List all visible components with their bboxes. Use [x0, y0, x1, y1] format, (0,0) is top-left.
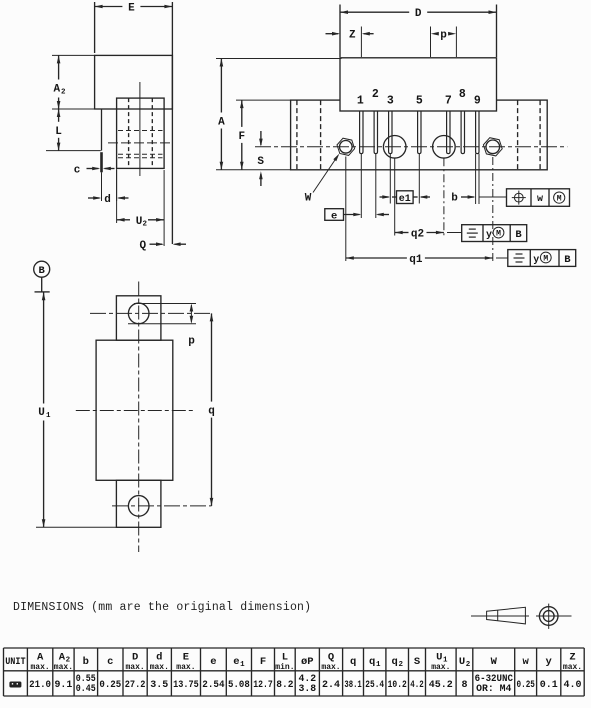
- svg-text:W: W: [491, 656, 498, 668]
- svg-text:e: e: [233, 656, 239, 668]
- svg-text:8: 8: [461, 680, 467, 691]
- svg-text:U: U: [436, 652, 442, 664]
- svg-text:5.08: 5.08: [228, 680, 250, 691]
- svg-text:min.: min.: [275, 663, 294, 672]
- svg-text:max.: max.: [125, 663, 144, 672]
- svg-text:10.2: 10.2: [388, 680, 407, 691]
- svg-text:2.4: 2.4: [322, 680, 340, 691]
- svg-text:1: 1: [376, 661, 381, 669]
- svg-text:max.: max.: [30, 663, 49, 672]
- svg-text:c: c: [74, 165, 81, 177]
- svg-text:w: w: [537, 194, 543, 205]
- svg-text:F: F: [238, 131, 245, 143]
- svg-text:3: 3: [387, 95, 394, 108]
- svg-text:UNIT: UNIT: [5, 656, 25, 668]
- svg-text:25.4: 25.4: [365, 680, 384, 691]
- svg-text:E: E: [128, 3, 135, 15]
- svg-text:M: M: [496, 230, 501, 239]
- svg-text:max.: max.: [150, 663, 169, 672]
- svg-text:7: 7: [445, 95, 452, 108]
- svg-text:A: A: [218, 117, 225, 129]
- svg-text:13.75: 13.75: [173, 680, 199, 691]
- svg-text:B: B: [564, 254, 571, 266]
- svg-text:4.0: 4.0: [563, 680, 581, 691]
- svg-text:A: A: [53, 84, 60, 96]
- svg-text:d: d: [156, 652, 162, 664]
- svg-text:9.1: 9.1: [55, 680, 73, 691]
- svg-text:F: F: [260, 656, 266, 668]
- svg-text:2: 2: [143, 220, 148, 228]
- svg-text:2.54: 2.54: [202, 680, 224, 691]
- svg-text:Q: Q: [328, 652, 334, 664]
- svg-text:2: 2: [398, 661, 403, 669]
- svg-text:p: p: [188, 336, 195, 348]
- svg-text:2: 2: [466, 661, 471, 669]
- svg-text:21.0: 21.0: [29, 680, 51, 691]
- svg-text:y: y: [486, 230, 492, 241]
- svg-text:B: B: [515, 229, 522, 241]
- svg-text:1: 1: [240, 661, 245, 669]
- svg-text:45.2: 45.2: [429, 680, 453, 691]
- svg-text:12.7: 12.7: [253, 680, 273, 691]
- svg-text:w: w: [523, 656, 530, 668]
- svg-text:d: d: [104, 194, 111, 206]
- svg-text:y: y: [546, 656, 553, 668]
- svg-text:e: e: [331, 210, 337, 222]
- svg-text:B: B: [39, 265, 46, 277]
- svg-text:U: U: [459, 656, 465, 668]
- svg-text:Q: Q: [139, 240, 146, 252]
- svg-text:OR: M4: OR: M4: [476, 683, 511, 694]
- svg-text:0.25: 0.25: [99, 680, 121, 691]
- svg-text:Z: Z: [569, 652, 575, 664]
- svg-text:y: y: [533, 255, 539, 266]
- svg-text:p: p: [440, 30, 447, 42]
- svg-text:M: M: [543, 255, 548, 264]
- svg-text:3.5: 3.5: [150, 680, 168, 691]
- svg-text:0.1: 0.1: [540, 680, 558, 691]
- svg-text:q: q: [350, 656, 356, 668]
- svg-text:e1: e1: [399, 194, 411, 205]
- svg-text:b: b: [83, 656, 89, 668]
- svg-text:U: U: [136, 216, 143, 228]
- svg-text:E: E: [183, 652, 189, 664]
- svg-text:D: D: [132, 652, 138, 664]
- svg-text:W: W: [305, 193, 312, 205]
- svg-text:c: c: [107, 656, 113, 668]
- svg-text:8.2: 8.2: [276, 680, 293, 691]
- svg-text:2: 2: [372, 88, 379, 101]
- svg-text:M: M: [557, 195, 562, 204]
- svg-text:max.: max.: [176, 663, 195, 672]
- svg-text:q2: q2: [411, 229, 424, 241]
- svg-text:L: L: [282, 652, 288, 664]
- svg-text:q: q: [392, 656, 398, 668]
- svg-text:e: e: [210, 656, 216, 668]
- svg-text:q1: q1: [409, 254, 423, 266]
- svg-text:q: q: [369, 656, 375, 668]
- svg-text:1: 1: [46, 412, 51, 420]
- svg-text:2: 2: [61, 89, 66, 97]
- svg-text:4.2: 4.2: [410, 680, 424, 691]
- svg-text:b: b: [451, 193, 458, 205]
- svg-text:Z: Z: [349, 30, 356, 42]
- svg-text:0.25: 0.25: [517, 680, 535, 691]
- svg-text:max.: max.: [321, 663, 340, 672]
- svg-text:U: U: [38, 407, 45, 419]
- svg-text:27.2: 27.2: [125, 680, 146, 691]
- svg-text:S: S: [414, 656, 420, 668]
- svg-text:q: q: [208, 406, 215, 418]
- svg-text:1: 1: [357, 95, 364, 108]
- svg-text:8: 8: [459, 88, 466, 101]
- svg-text:max.: max.: [431, 663, 450, 672]
- svg-text:L: L: [55, 126, 62, 138]
- svg-text:38.1: 38.1: [344, 680, 361, 691]
- svg-text:max.: max.: [563, 663, 582, 672]
- svg-text:øP: øP: [301, 656, 314, 668]
- svg-text:3.8: 3.8: [298, 683, 316, 694]
- svg-text:D: D: [415, 8, 422, 20]
- svg-text:S: S: [257, 156, 264, 168]
- svg-text:5: 5: [416, 95, 423, 108]
- svg-text:9: 9: [474, 95, 481, 108]
- svg-text:A: A: [37, 652, 44, 664]
- svg-text:max.: max.: [54, 663, 73, 672]
- svg-text:0.45: 0.45: [76, 683, 96, 694]
